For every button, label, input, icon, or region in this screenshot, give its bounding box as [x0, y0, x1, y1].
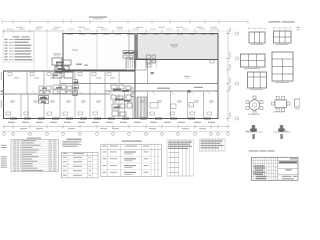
hall interior marks — [76, 64, 82, 65]
table T4 header text — [168, 142, 192, 143]
title block frame — [251, 157, 298, 180]
cabinet detail B — [274, 31, 292, 43]
dimension chain above cabinet A — [249, 28, 266, 30]
rect table with chairs detail — [275, 100, 287, 108]
title block bottom cells text — [282, 176, 292, 177]
table T2 title — [67, 139, 82, 140]
bottom chain text row — [8, 122, 15, 123]
round table with chairs detail — [249, 100, 259, 110]
left margin annotation text — [1, 145, 7, 146]
text left of hall — [53, 54, 61, 55]
axis grid lines through legend zone — [33, 32, 35, 71]
legend header text — [13, 36, 20, 37]
stair steps upper — [126, 59, 128, 69]
core equipment marks upper — [123, 51, 127, 54]
left wing middle wall — [4, 93, 111, 95]
windows along top walls — [67, 33, 73, 35]
cabinet detail A — [249, 32, 265, 43]
assembly hall gray room top-right — [137, 34, 218, 60]
table T4 finish schedule — [166, 140, 168, 176]
bottom chain text 2 — [20, 128, 27, 129]
door mark dining room — [151, 72, 154, 74]
corridor wall lower — [105, 90, 218, 92]
wc block near corridor — [39, 86, 44, 90]
title block right horizontals — [278, 160, 298, 162]
right margin tick marks — [297, 27, 300, 28]
furniture caption text — [249, 150, 259, 151]
table T2 header text rows — [62, 141, 81, 142]
table T4 body marks — [169, 151, 179, 154]
wc block right extension — [73, 80, 78, 84]
column grid bubbles — [3, 132, 6, 135]
hall room label — [72, 50, 78, 51]
right details caption text — [269, 21, 281, 22]
upper room partitions left wing — [26, 71, 28, 94]
corridor annotation marks — [157, 88, 170, 89]
table T1 room schedule — [11, 139, 59, 171]
right wing outline — [135, 60, 218, 119]
small furniture marks lower rooms — [6, 112, 11, 115]
table T1 text — [22, 140, 37, 141]
dense knot below mid wall left — [39, 96, 44, 100]
door opening marks corridor — [32, 91, 36, 95]
bottom chain line 2 — [2, 131, 230, 133]
sheet title text — [89, 17, 107, 18]
section detail left — [245, 131, 263, 133]
entrance block heavy details — [52, 58, 62, 65]
wc kitchen fixtures block — [111, 85, 117, 89]
lower right rooms furniture — [150, 103, 158, 109]
upper room partitions right wing — [147, 60, 149, 84]
wc dense dark marks — [113, 89, 121, 91]
stair hatch lower — [137, 97, 139, 118]
title block left grid verticals — [253, 157, 255, 180]
windows along bottom wall — [10, 117, 17, 119]
sideboard detail C — [241, 54, 266, 67]
chain 1 dimension text — [16, 27, 23, 28]
table T1 title — [27, 138, 41, 139]
table T3 window door spec — [101, 144, 162, 176]
upper rooms labels — [14, 77, 19, 80]
title block doc code text — [279, 161, 297, 163]
table T3 cell text — [103, 151, 107, 152]
tall wardrobe detail D — [272, 52, 293, 81]
hall room top-middle — [63, 34, 135, 71]
table T3 title — [122, 141, 142, 142]
bottom chain line 1 — [2, 126, 230, 128]
left wall edge marks — [1, 91, 4, 92]
right grid bubbles — [235, 32, 238, 35]
gray room label — [170, 45, 178, 46]
small furniture marks upper rooms — [8, 73, 12, 76]
top dimension chain 1 — [2, 21, 248, 23]
table T2 spec of lintels — [61, 152, 98, 178]
marks right of core — [147, 55, 151, 59]
right vertical dimension chain — [227, 30, 229, 122]
title block small top right text — [290, 158, 297, 159]
lower rooms labels — [10, 100, 15, 103]
title block left grid horizontals — [251, 160, 277, 162]
cabinet detail E — [248, 72, 267, 88]
dimension chain above cabinet B — [274, 27, 292, 29]
edge table detail right margin — [295, 99, 301, 107]
left wing outline — [4, 71, 136, 119]
table T5 schedule — [199, 139, 201, 151]
section detail right — [273, 131, 291, 133]
table T2 cell text — [63, 157, 67, 158]
table T5 text — [201, 140, 223, 141]
corridor wall upper — [60, 83, 218, 85]
left vertical chain text — [0, 72, 3, 76]
title block stage text — [286, 169, 292, 170]
hall internal partition — [96, 34, 98, 70]
legend box — [3, 32, 34, 63]
top dimension chain 2 — [2, 30, 63, 32]
stair core strip between halls — [129, 34, 136, 60]
lower room partitions — [20, 94, 22, 119]
chain 2 dimension text — [6, 28, 12, 31]
legend rows — [5, 39, 8, 40]
table T3 header text — [102, 146, 107, 147]
title block left dense text — [254, 165, 265, 166]
